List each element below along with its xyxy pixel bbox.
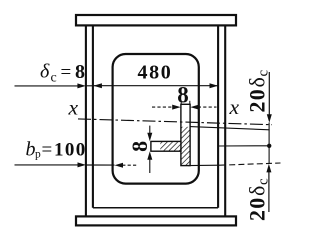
svg-text:100: 100 (54, 140, 87, 161)
svg-text:x: x (68, 96, 79, 120)
svg-text:c: c (256, 178, 272, 185)
inner bottom plate line (93, 207, 218, 209)
svg-text:480: 480 (138, 61, 173, 83)
dimension: b_p = 100 leader (15, 164, 81, 166)
svg-text:δ: δ (245, 186, 270, 196)
svg-text:δ: δ (40, 61, 50, 83)
bottom base plate (76, 216, 236, 225)
svg-text:8: 8 (127, 141, 152, 152)
dimension: delta_c = 8 leader (15, 85, 94, 87)
dimension: 8 (rib thickness, top) (152, 106, 173, 108)
extension stubs above rib (180, 101, 182, 105)
svg-text:=: = (42, 140, 53, 161)
svg-text:20: 20 (245, 88, 270, 112)
svg-text:c: c (51, 71, 57, 86)
label b_p=100 (rib flange width) (26, 139, 87, 161)
top flange plate (76, 15, 236, 25)
svg-text:x: x (229, 95, 240, 119)
svg-text:20: 20 (245, 197, 270, 221)
rounded web opening (113, 54, 199, 184)
svg-text:=: = (61, 62, 72, 83)
label 20 delta_c (lower effective width, rotated) (245, 178, 272, 221)
rib bottom extension (188, 164, 220, 166)
svg-text:8: 8 (177, 82, 189, 107)
rib stiffener (vertical hatched bar) (181, 104, 190, 165)
dimension: 20 delta_c (bottom right) (268, 171, 270, 212)
flange bar (horizontal hatched bar) (151, 141, 181, 151)
svg-text:8: 8 (75, 61, 85, 83)
label 20 delta_c (upper effective width, rotated) (245, 70, 272, 113)
label 8 (bar thickness value, rotated) (127, 141, 152, 152)
mid extension with dot (218, 145, 270, 147)
connecting vertical between right dims (268, 123, 270, 165)
svg-text:p: p (35, 149, 41, 161)
svg-text:δ: δ (245, 77, 270, 87)
x-x axis dash-dot line (78, 119, 272, 125)
rib top extension (190, 127, 270, 130)
left branch plate inner line (92, 25, 94, 207)
right branch plate outer line (224, 25, 226, 216)
label delta_c=8 (web plate thickness) (40, 61, 85, 86)
dimension: 8 (bar thickness, rotated) (149, 126, 151, 134)
left branch plate outer line (85, 25, 87, 216)
svg-text:c: c (256, 70, 272, 77)
dimension: 20 delta_c (top right) (268, 72, 270, 115)
svg-text:b: b (26, 139, 36, 161)
right branch plate inner line (217, 25, 219, 207)
dimension: 480 (93, 85, 218, 87)
